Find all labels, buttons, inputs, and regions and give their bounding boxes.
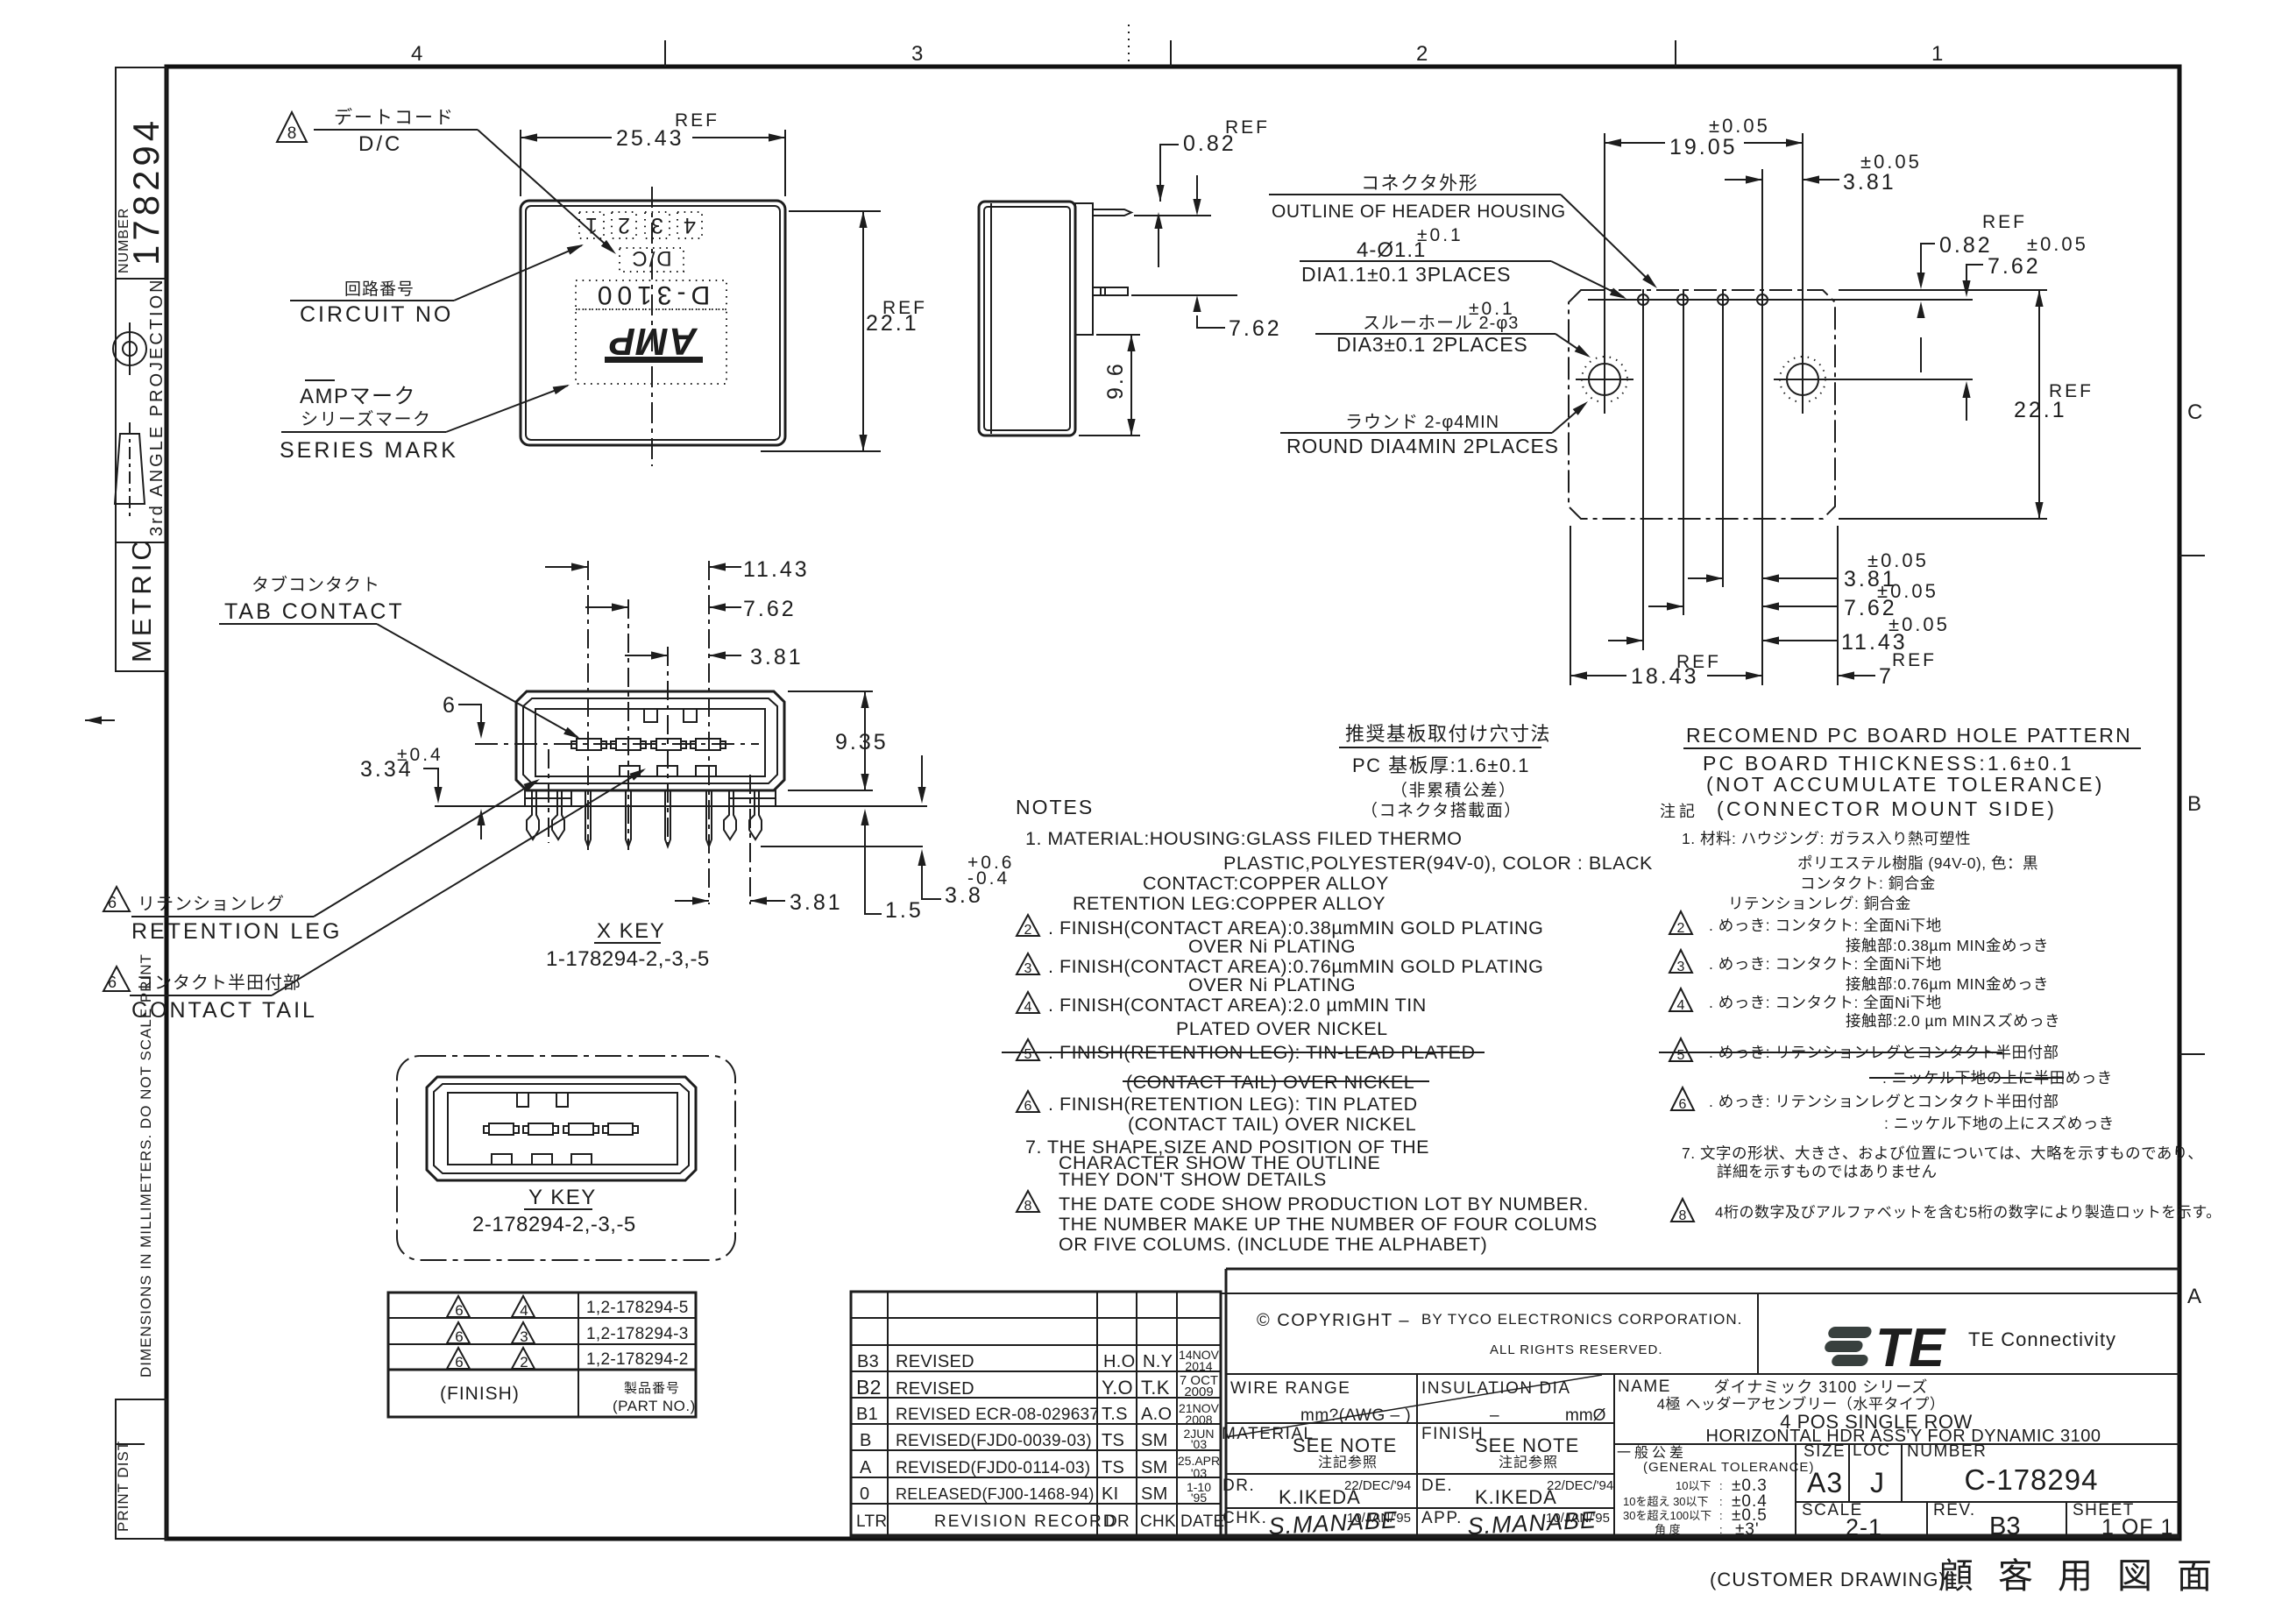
svg-text:回路番号: 回路番号	[344, 280, 415, 299]
svg-text:Y.O: Y.O	[1102, 1377, 1133, 1399]
svg-text:RETENTION LEG: RETENTION LEG	[131, 919, 342, 944]
svg-text:NOTES: NOTES	[1016, 796, 1094, 818]
svg-text:DR.: DR.	[1222, 1477, 1255, 1495]
svg-text:B3: B3	[857, 1352, 879, 1371]
svg-text:TE: TE	[1875, 1318, 1946, 1378]
svg-text:DIA1.1±0.1 3PLACES: DIA1.1±0.1 3PLACES	[1301, 263, 1511, 286]
svg-text::: :	[1719, 1523, 1723, 1536]
svg-text:10/JAN/'95: 10/JAN/'95	[1546, 1511, 1610, 1526]
svg-text:PRINT DIST: PRINT DIST	[115, 1441, 131, 1532]
svg-text:OVER Ni PLATING: OVER Ni PLATING	[1188, 936, 1356, 957]
svg-text:11.43: 11.43	[743, 557, 810, 582]
svg-text:4: 4	[1024, 1000, 1032, 1015]
svg-text:3.34: 3.34	[360, 757, 414, 782]
svg-text:OR FIVE COLUMS. (INCLUDE THE A: OR FIVE COLUMS. (INCLUDE THE ALPHABET)	[1059, 1234, 1487, 1255]
svg-text:4桁の数字及びアルファベットを含む5桁の数字により製造ロット: 4桁の数字及びアルファベットを含む5桁の数字により製造ロットを示す。	[1715, 1204, 2222, 1221]
svg-text:タブコンタクト: タブコンタクト	[252, 574, 380, 595]
svg-text::: :	[1719, 1495, 1723, 1508]
svg-text:METRIC: METRIC	[126, 537, 157, 662]
svg-text:ROUND DIA4MIN 2PLACES: ROUND DIA4MIN 2PLACES	[1286, 435, 1559, 457]
svg-text:. FINISH(CONTACT AREA):2.0 µm: . FINISH(CONTACT AREA):2.0 µmMIN TIN	[1048, 995, 1427, 1016]
svg-text:REVISED: REVISED	[896, 1352, 974, 1371]
svg-text:リテンションレグ: 銅合金: リテンションレグ: 銅合金	[1728, 895, 1911, 912]
svg-text:ポリエステル樹脂 (94V-0), 色：黒: ポリエステル樹脂 (94V-0), 色：黒	[1797, 854, 2038, 872]
svg-text:2-178294-2,-3,-5: 2-178294-2,-3,-5	[472, 1213, 636, 1236]
svg-text:接触部:0.76µm MIN金めっき: 接触部:0.76µm MIN金めっき	[1846, 975, 2049, 993]
svg-text:10を超え 30以下: 10を超え 30以下	[1623, 1495, 1709, 1508]
svg-text:WIRE RANGE: WIRE RANGE	[1230, 1379, 1350, 1398]
svg-text:APP.: APP.	[1421, 1509, 1463, 1527]
svg-text:OVER Ni PLATING: OVER Ni PLATING	[1188, 974, 1356, 995]
svg-text:25.43: 25.43	[616, 126, 684, 151]
svg-text:7. 文字の形状、大きさ、および位置については、大略を示すも: 7. 文字の形状、大きさ、および位置については、大略を示すものであり、	[1682, 1144, 2203, 1162]
svg-text:スルーホール 2-φ3: スルーホール 2-φ3	[1363, 314, 1519, 333]
svg-text:0: 0	[860, 1484, 869, 1504]
svg-text:PLASTIC,POLYESTER(94V-0), COLO: PLASTIC,POLYESTER(94V-0), COLOR : BLACK	[1223, 853, 1653, 874]
svg-text:. FINISH(RETENTION LEG): TIN P: . FINISH(RETENTION LEG): TIN PLATED	[1048, 1094, 1418, 1115]
svg-text:BY TYCO ELECTRONICS CORPORATIO: BY TYCO ELECTRONICS CORPORATION.	[1421, 1311, 1742, 1328]
svg-text:X KEY: X KEY	[597, 919, 665, 943]
svg-text:D/C: D/C	[630, 246, 671, 270]
svg-text:0.82: 0.82	[1183, 131, 1237, 156]
svg-text:接触部:0.38µm MIN金めっき: 接触部:0.38µm MIN金めっき	[1846, 937, 2049, 954]
svg-text:2009: 2009	[1184, 1385, 1213, 1399]
svg-text:±0.05: ±0.05	[1709, 115, 1770, 137]
svg-text:SM: SM	[1141, 1431, 1168, 1450]
svg-text:4: 4	[520, 1302, 528, 1319]
svg-text:REVISED(FJD0-0114-03): REVISED(FJD0-0114-03)	[896, 1459, 1090, 1477]
svg-text:SEE NOTE: SEE NOTE	[1475, 1434, 1579, 1456]
svg-text:詳細を示すものではありません: 詳細を示すものではありません	[1717, 1163, 1937, 1180]
svg-text:角 度: 角 度	[1655, 1523, 1681, 1536]
svg-text:1: 1	[585, 213, 598, 237]
svg-text:18.43: 18.43	[1631, 664, 1699, 689]
svg-text:デートコード: デートコード	[334, 108, 455, 128]
svg-text:3: 3	[1024, 961, 1032, 976]
svg-text:2: 2	[1416, 42, 1428, 66]
svg-text:LOC: LOC	[1853, 1441, 1891, 1460]
svg-text:PC 基板厚:1.6±0.1: PC 基板厚:1.6±0.1	[1352, 754, 1530, 776]
svg-text:6: 6	[1679, 1097, 1687, 1112]
svg-text:3.81: 3.81	[1843, 170, 1896, 195]
svg-text:K.IKEDA: K.IKEDA	[1475, 1486, 1557, 1508]
svg-text:推奨基板取付け穴寸法: 推奨基板取付け穴寸法	[1345, 723, 1551, 745]
svg-text:C: C	[2187, 400, 2202, 424]
svg-text:9.6: 9.6	[1103, 361, 1128, 400]
svg-text:AMP: AMP	[609, 320, 698, 363]
svg-text:3.81: 3.81	[750, 645, 804, 669]
svg-text:ラウンド 2-φ4MIN: ラウンド 2-φ4MIN	[1345, 413, 1499, 432]
svg-text:'95: '95	[1191, 1491, 1207, 1505]
svg-text:D/C: D/C	[358, 132, 402, 156]
svg-text:REV.: REV.	[1933, 1501, 1976, 1519]
svg-text:INSULATION DIA: INSULATION DIA	[1421, 1379, 1571, 1398]
svg-text:4: 4	[411, 42, 422, 66]
svg-text:7.62: 7.62	[1229, 316, 1282, 341]
svg-text:. めっき: リテンションレグとコンタクト半田付部: . めっき: リテンションレグとコンタクト半田付部	[1709, 1093, 2059, 1110]
svg-text:A.O: A.O	[1141, 1405, 1172, 1424]
svg-text:PLATED OVER NICKEL: PLATED OVER NICKEL	[1176, 1018, 1388, 1039]
svg-text:178294: 178294	[125, 117, 167, 266]
svg-text:ALL RIGHTS RESERVED.: ALL RIGHTS RESERVED.	[1490, 1342, 1663, 1357]
svg-text:. めっき: コンタクト: 全面Ni下地: . めっき: コンタクト: 全面Ni下地	[1709, 994, 1942, 1011]
svg-text:REF: REF	[1982, 212, 2027, 232]
svg-text:1. 材料: ハウジング: ガラス入り熱可塑性: 1. 材料: ハウジング: ガラス入り熱可塑性	[1682, 830, 1971, 847]
svg-text:3rd ANGLE PROJECTION: 3rd ANGLE PROJECTION	[147, 277, 167, 536]
svg-text:3: 3	[520, 1328, 528, 1345]
svg-text:(CONTACT TAIL) OVER NICKEL: (CONTACT TAIL) OVER NICKEL	[1128, 1114, 1416, 1135]
svg-text:6: 6	[455, 1302, 463, 1319]
svg-text:–: –	[1490, 1406, 1499, 1425]
svg-text:2: 2	[1677, 921, 1685, 936]
svg-text:(CONNECTOR MOUNT SIDE): (CONNECTOR MOUNT SIDE)	[1717, 797, 2057, 820]
svg-text:8: 8	[1024, 1199, 1032, 1214]
svg-text:'03: '03	[1191, 1466, 1207, 1480]
svg-text:A: A	[860, 1458, 872, 1477]
svg-text:DIA3±0.1 2PLACES: DIA3±0.1 2PLACES	[1336, 333, 1527, 356]
svg-text:SIZE: SIZE	[1803, 1442, 1846, 1461]
svg-text:5: 5	[1024, 1047, 1032, 1062]
svg-text:B1: B1	[856, 1405, 878, 1424]
svg-text:2: 2	[520, 1354, 528, 1371]
svg-text:注記参照: 注記参照	[1318, 1455, 1378, 1470]
svg-text::: :	[1719, 1509, 1723, 1522]
svg-text:AMPマーク: AMPマーク	[300, 385, 416, 408]
svg-text:C-178294: C-178294	[1965, 1463, 2099, 1496]
svg-text:8: 8	[1679, 1208, 1687, 1223]
svg-text:1.5: 1.5	[885, 898, 924, 923]
svg-text:0.82: 0.82	[1939, 233, 1993, 258]
svg-text:SM: SM	[1141, 1458, 1168, 1477]
svg-text:6: 6	[443, 693, 457, 718]
svg-text:7: 7	[1879, 664, 1894, 689]
svg-text:NAME: NAME	[1618, 1378, 1671, 1396]
svg-text:6: 6	[108, 894, 117, 911]
svg-text:（非累積公差）: （非累積公差）	[1391, 781, 1517, 800]
svg-text:7.62: 7.62	[1988, 254, 2041, 279]
svg-text:. めっき: コンタクト: 全面Ni下地: . めっき: コンタクト: 全面Ni下地	[1709, 917, 1942, 934]
svg-text:2-1: 2-1	[1846, 1514, 1882, 1541]
svg-text:H.O: H.O	[1103, 1352, 1135, 1371]
svg-text:3: 3	[911, 42, 923, 66]
svg-text:T.K: T.K	[1141, 1377, 1170, 1399]
svg-text:2014: 2014	[1185, 1359, 1212, 1373]
svg-text:Y KEY: Y KEY	[528, 1186, 597, 1209]
svg-text:5: 5	[1677, 1048, 1685, 1063]
svg-text:K.IKEDA: K.IKEDA	[1279, 1486, 1361, 1508]
svg-text:4: 4	[1677, 998, 1685, 1013]
svg-text:RECOMEND PC BOARD HOLE PATTERN: RECOMEND PC BOARD HOLE PATTERN	[1686, 724, 2132, 747]
svg-text:T.S: T.S	[1102, 1405, 1128, 1424]
svg-text:10以下: 10以下	[1676, 1479, 1711, 1492]
svg-text:. めっき: コンタクト: 全面Ni下地: . めっき: コンタクト: 全面Ni下地	[1709, 955, 1942, 973]
svg-text:1,2-178294-3: 1,2-178294-3	[586, 1325, 689, 1343]
svg-text:REF: REF	[1892, 650, 1937, 670]
svg-text:(PART NO.): (PART NO.)	[613, 1398, 696, 1414]
svg-text:mm?(AWG – ): mm?(AWG – )	[1300, 1406, 1411, 1425]
svg-text:© COPYRIGHT –: © COPYRIGHT –	[1257, 1311, 1410, 1330]
svg-text:(NOT ACCUMULATE TOLERANCE): (NOT ACCUMULATE TOLERANCE)	[1706, 773, 2105, 796]
svg-text:: ニッケル下地の上にスズめっき: : ニッケル下地の上にスズめっき	[1884, 1115, 2115, 1132]
svg-text:ダイナミック 3100 シリーズ: ダイナミック 3100 シリーズ	[1714, 1378, 1929, 1396]
svg-text:シリーズマーク: シリーズマーク	[301, 409, 432, 429]
svg-text:30を超え100以下: 30を超え100以下	[1623, 1509, 1711, 1522]
svg-text:19.05: 19.05	[1669, 135, 1738, 159]
svg-text:リテンションレグ: リテンションレグ	[138, 894, 285, 914]
svg-text:3: 3	[651, 213, 663, 237]
svg-text:2008: 2008	[1185, 1413, 1212, 1427]
svg-text:CHK.: CHK.	[1222, 1509, 1267, 1527]
svg-text:'03: '03	[1191, 1437, 1207, 1451]
svg-text:22.1: 22.1	[866, 311, 919, 336]
svg-text:J: J	[1870, 1467, 1884, 1498]
svg-text:3: 3	[1677, 960, 1685, 974]
svg-text:2: 2	[1024, 923, 1032, 938]
svg-text:OUTLINE OF HEADER HOUSING: OUTLINE OF HEADER HOUSING	[1272, 202, 1566, 222]
svg-text:PC BOARD THICKNESS:1.6±0.1: PC BOARD THICKNESS:1.6±0.1	[1703, 752, 2074, 775]
svg-text:CONTACT TAIL: CONTACT TAIL	[131, 998, 317, 1023]
svg-text:B3: B3	[1989, 1512, 2020, 1541]
svg-text:（コネクタ搭載面）: （コネクタ搭載面）	[1361, 801, 1522, 820]
svg-text:RELEASED(FJ00-1468-94): RELEASED(FJ00-1468-94)	[896, 1485, 1095, 1503]
svg-text:6: 6	[1024, 1099, 1032, 1114]
svg-text:接触部:2.0 µm MINスズめっき: 接触部:2.0 µm MINスズめっき	[1846, 1012, 2060, 1030]
svg-text:SERIES MARK: SERIES MARK	[280, 438, 458, 463]
svg-text:KI: KI	[1102, 1484, 1119, 1504]
svg-text:REVISED(FJD0-0039-03): REVISED(FJD0-0039-03)	[896, 1432, 1092, 1450]
svg-text:9.35: 9.35	[835, 730, 889, 754]
svg-text:A3: A3	[1807, 1467, 1843, 1498]
svg-text:N.Y: N.Y	[1143, 1352, 1173, 1371]
svg-text:SM: SM	[1141, 1484, 1168, 1504]
svg-text:1,2-178294-5: 1,2-178294-5	[586, 1299, 689, 1317]
svg-text:6: 6	[108, 974, 117, 991]
svg-text:コネクタ外形: コネクタ外形	[1361, 174, 1478, 194]
svg-text:1 OF 1: 1 OF 1	[2101, 1515, 2173, 1540]
svg-text:D-3100: D-3100	[592, 280, 710, 309]
svg-text:SEE NOTE: SEE NOTE	[1293, 1434, 1397, 1456]
svg-text:DATE: DATE	[1180, 1512, 1224, 1531]
svg-text:B2: B2	[856, 1376, 882, 1399]
svg-text:4極 ヘッダーアセンブリー（水平タイプ）: 4極 ヘッダーアセンブリー（水平タイプ）	[1657, 1395, 1945, 1413]
svg-text:1. MATERIAL:HOUSING:GLASS FILE: 1. MATERIAL:HOUSING:GLASS FILED THERMO	[1025, 828, 1462, 849]
svg-text:±0.05: ±0.05	[2027, 233, 2088, 255]
svg-text:1,2-178294-2: 1,2-178294-2	[586, 1350, 689, 1369]
svg-text:6: 6	[455, 1328, 463, 1345]
svg-text:注記: 注記	[1660, 803, 1698, 820]
svg-text:CHK: CHK	[1140, 1512, 1176, 1531]
svg-text:REVISED: REVISED	[896, 1379, 974, 1399]
svg-text:CONTACT:COPPER ALLOY: CONTACT:COPPER ALLOY	[1143, 873, 1389, 894]
svg-text:コンタクト半田付部: コンタクト半田付部	[136, 973, 301, 993]
svg-text:±3': ±3'	[1735, 1520, 1760, 1539]
svg-text:TS: TS	[1102, 1431, 1124, 1450]
svg-text:2: 2	[618, 213, 630, 237]
svg-text:4-Ø1.1: 4-Ø1.1	[1357, 238, 1426, 262]
svg-text:製品番号: 製品番号	[624, 1381, 680, 1396]
svg-text:NUMBER: NUMBER	[1907, 1442, 1987, 1461]
svg-text:THE DATE CODE SHOW PRODUCTION: THE DATE CODE SHOW PRODUCTION LOT BY NUM…	[1059, 1193, 1589, 1215]
svg-text:B: B	[2187, 792, 2201, 816]
svg-text:HORIZONTAL HDR ASS'Y FOR DYNAM: HORIZONTAL HDR ASS'Y FOR DYNAMIC 3100	[1706, 1427, 2101, 1446]
svg-text:コンタクト: 銅合金: コンタクト: 銅合金	[1800, 875, 1936, 892]
svg-text:注記参照: 注記参照	[1499, 1455, 1558, 1470]
svg-text:TAB CONTACT: TAB CONTACT	[224, 599, 405, 624]
svg-text:22.1: 22.1	[2014, 398, 2067, 422]
svg-text:THE NUMBER MAKE UP THE NUMBER: THE NUMBER MAKE UP THE NUMBER OF FOUR CO…	[1059, 1214, 1598, 1235]
svg-text:mmØ: mmØ	[1565, 1406, 1606, 1425]
svg-text:A: A	[2187, 1285, 2201, 1308]
svg-text:B: B	[860, 1431, 872, 1450]
svg-text:(GENERAL TOLERANCE): (GENERAL TOLERANCE)	[1643, 1460, 1814, 1475]
svg-text:顧客用図面: 顧客用図面	[1938, 1557, 2236, 1596]
svg-text:TS: TS	[1102, 1458, 1124, 1477]
svg-text:8: 8	[287, 124, 297, 143]
svg-text:REVISION RECORD: REVISION RECORD	[934, 1512, 1116, 1531]
svg-text:3.81: 3.81	[790, 890, 843, 915]
svg-text:1: 1	[1931, 42, 1943, 66]
svg-text:DR: DR	[1105, 1512, 1130, 1531]
svg-text:CIRCUIT NO: CIRCUIT NO	[300, 302, 453, 327]
svg-text:DE.: DE.	[1421, 1477, 1453, 1495]
svg-text:RETENTION LEG:COPPER ALLOY: RETENTION LEG:COPPER ALLOY	[1073, 893, 1385, 914]
svg-text:1-178294-2,-3,-5: 1-178294-2,-3,-5	[546, 947, 710, 971]
svg-text:4: 4	[684, 213, 696, 237]
svg-text:-0.4: -0.4	[967, 868, 1010, 889]
svg-text::: :	[1719, 1479, 1723, 1492]
svg-text:(FINISH): (FINISH)	[440, 1384, 520, 1404]
svg-text:THEY DON'T SHOW DETAILS: THEY DON'T SHOW DETAILS	[1059, 1169, 1327, 1190]
svg-text:6: 6	[455, 1354, 463, 1371]
svg-text:REVISED ECR-08-029637: REVISED ECR-08-029637	[896, 1406, 1099, 1424]
svg-text:一般公差: 一般公差	[1617, 1445, 1687, 1461]
svg-text:TE Connectivity: TE Connectivity	[1968, 1328, 2116, 1350]
svg-text:7.62: 7.62	[743, 597, 797, 621]
svg-text:(CUSTOMER DRAWING): (CUSTOMER DRAWING)	[1710, 1569, 1946, 1590]
svg-text:LTR: LTR	[856, 1512, 887, 1531]
